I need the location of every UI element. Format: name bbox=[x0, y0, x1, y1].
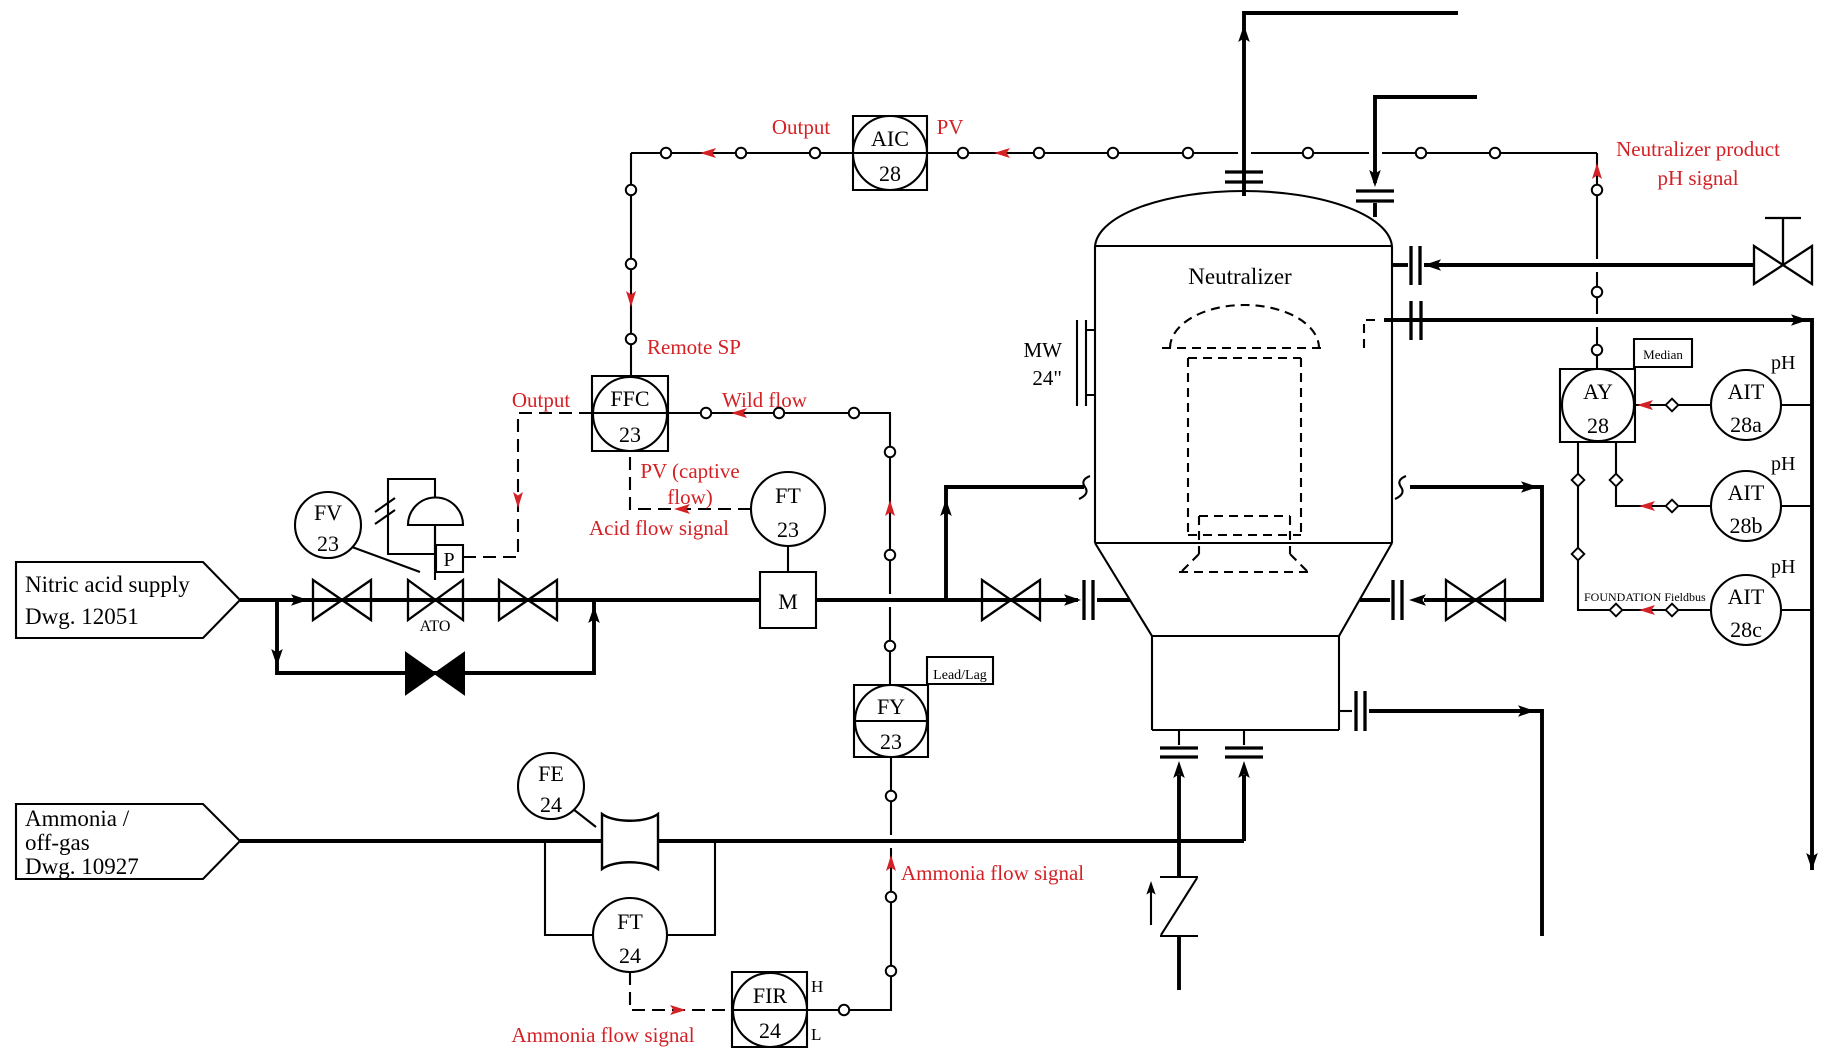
svg-text:flow): flow) bbox=[667, 485, 713, 509]
FT24 to FIR24 dashed signal bbox=[630, 972, 732, 1015]
fieldbus from AIT28a to AY28 bbox=[1635, 399, 1711, 412]
top feed line into vessel dome bbox=[1356, 97, 1477, 217]
bottom nozzles with flanges bbox=[1160, 730, 1263, 877]
riser line break symbol (from pump) bbox=[1146, 877, 1198, 990]
svg-text:pH signal: pH signal bbox=[1657, 166, 1738, 190]
svg-text:28: 28 bbox=[879, 161, 901, 186]
svg-text:off-gas: off-gas bbox=[25, 830, 90, 855]
svg-text:pH: pH bbox=[1771, 352, 1795, 374]
svg-text:Dwg. 12051: Dwg. 12051 bbox=[25, 604, 139, 629]
median selector AY28 bbox=[1560, 369, 1635, 442]
controller AIC28 bbox=[853, 116, 927, 190]
Median box bbox=[1634, 339, 1692, 367]
bottom outlet line to pump (right) bbox=[1339, 691, 1542, 936]
analyzer AIT28c bbox=[1711, 556, 1812, 645]
FV23 actuator bbox=[375, 479, 463, 580]
svg-text:PV: PV bbox=[937, 115, 964, 139]
wild flow signal line FY23 to FFC23 bbox=[668, 408, 895, 685]
svg-text:24: 24 bbox=[759, 1018, 781, 1043]
svg-text:28a: 28a bbox=[1730, 412, 1762, 437]
Lead/Lag box bbox=[927, 657, 993, 684]
svg-text:24": 24" bbox=[1032, 366, 1062, 390]
svg-text:AIC: AIC bbox=[871, 126, 909, 151]
nitric acid main process line bbox=[240, 598, 1078, 602]
flow transmitter FT23 bbox=[751, 472, 825, 572]
acid flow PV dashed signal FT23 to FFC bbox=[630, 450, 751, 514]
svg-text:FFC: FFC bbox=[610, 386, 649, 411]
manway MW 24" bbox=[1024, 320, 1096, 406]
svg-text:Acid flow signal: Acid flow signal bbox=[589, 516, 729, 540]
block valve right bbox=[499, 580, 557, 620]
internal draft tube (dashed) bbox=[1162, 305, 1327, 572]
svg-text:28b: 28b bbox=[1730, 513, 1763, 538]
FFC output dashed signal to positioner bbox=[463, 413, 592, 557]
svg-text:Ammonia flow signal: Ammonia flow signal bbox=[511, 1023, 694, 1047]
svg-text:Ammonia /: Ammonia / bbox=[25, 806, 130, 831]
svg-text:pH: pH bbox=[1771, 556, 1795, 578]
svg-text:AIT: AIT bbox=[1728, 379, 1765, 404]
block valve left bbox=[313, 580, 371, 620]
signal drop to FFC remote SP bbox=[626, 153, 636, 376]
AIC28 output/PV software signal line (top) bbox=[631, 148, 1597, 158]
svg-text:28c: 28c bbox=[1730, 617, 1762, 642]
svg-text:AIT: AIT bbox=[1728, 584, 1765, 609]
svg-text:H: H bbox=[811, 977, 823, 996]
ammonia process line bbox=[240, 839, 1244, 843]
instrument bubble FV23 bbox=[295, 492, 420, 572]
controller FFC23 bbox=[592, 376, 668, 451]
acid riser to vessel top nozzle bbox=[940, 476, 1090, 600]
svg-text:Lead/Lag: Lead/Lag bbox=[933, 668, 987, 683]
svg-text:P: P bbox=[443, 549, 454, 571]
vessel Neutralizer shell bbox=[1095, 191, 1392, 730]
svg-text:Ammonia flow signal: Ammonia flow signal bbox=[901, 861, 1084, 885]
svg-text:FV: FV bbox=[314, 500, 342, 525]
svg-text:Wild flow: Wild flow bbox=[722, 388, 808, 412]
pH signal riser from AY28 bbox=[1592, 153, 1602, 368]
flow transmitter FT24 bbox=[593, 898, 667, 972]
svg-text:Nitric acid supply: Nitric acid supply bbox=[25, 572, 190, 597]
svg-text:24: 24 bbox=[619, 943, 641, 968]
fieldbus from AIT28c to AY28 bbox=[1572, 442, 1711, 616]
svg-text:24: 24 bbox=[540, 792, 562, 817]
nitric acid supply flag bbox=[16, 562, 240, 638]
svg-text:FOUNDATION Fieldbus: FOUNDATION Fieldbus bbox=[1584, 590, 1706, 604]
svg-text:M: M bbox=[778, 589, 798, 614]
svg-text:Output: Output bbox=[772, 115, 831, 139]
svg-text:L: L bbox=[811, 1025, 821, 1044]
bypass line with NC valve bbox=[271, 600, 600, 694]
ammonia off-gas flag bbox=[16, 804, 240, 879]
svg-text:Remote SP: Remote SP bbox=[647, 335, 741, 359]
analyzer AIT28a bbox=[1711, 352, 1812, 440]
reagent line into upper right nozzle y=265 bbox=[1392, 246, 1754, 285]
svg-text:Output: Output bbox=[512, 388, 571, 412]
vent line from vessel top bbox=[1225, 13, 1458, 196]
analyzer AIT28b bbox=[1711, 453, 1812, 541]
svg-text:Neutralizer: Neutralizer bbox=[1188, 264, 1292, 289]
svg-text:FT: FT bbox=[617, 909, 643, 934]
flange lower right cone nozzle bbox=[1393, 580, 1402, 620]
svg-text:23: 23 bbox=[880, 729, 902, 754]
svg-text:ATO: ATO bbox=[420, 618, 451, 635]
FT24 impulse lines bbox=[545, 841, 715, 935]
valve before left cone nozzle bbox=[982, 580, 1040, 620]
svg-text:AIT: AIT bbox=[1728, 480, 1765, 505]
ammonia flow signal line FIR to FY bbox=[807, 757, 896, 1015]
control valve FV23 body bbox=[408, 580, 463, 620]
svg-text:FY: FY bbox=[877, 694, 905, 719]
svg-text:FT: FT bbox=[775, 483, 801, 508]
svg-text:28: 28 bbox=[1587, 413, 1609, 438]
recorder FIR24 bbox=[732, 972, 823, 1047]
flow element venturi FE24 bbox=[518, 753, 658, 869]
svg-text:PV (captive: PV (captive bbox=[640, 459, 739, 483]
fieldbus from AIT28b to AY28 bbox=[1610, 442, 1711, 512]
svg-text:Neutralizer product: Neutralizer product bbox=[1616, 137, 1780, 161]
svg-text:Median: Median bbox=[1643, 347, 1683, 362]
svg-text:AY: AY bbox=[1583, 379, 1613, 404]
recirculation return valve bbox=[1446, 580, 1505, 620]
svg-text:23: 23 bbox=[317, 531, 339, 556]
svg-text:FIR: FIR bbox=[753, 983, 788, 1008]
positioner P bbox=[436, 545, 463, 572]
svg-text:Dwg. 10927: Dwg. 10927 bbox=[25, 854, 139, 879]
svg-text:23: 23 bbox=[777, 517, 799, 542]
svg-text:MW: MW bbox=[1024, 338, 1063, 362]
svg-text:FE: FE bbox=[538, 761, 564, 786]
magnetic flowmeter M bbox=[760, 572, 816, 628]
manual valve top right bbox=[1754, 218, 1812, 284]
svg-text:23: 23 bbox=[619, 422, 641, 447]
svg-text:pH: pH bbox=[1771, 453, 1795, 475]
product line out right side y=320 to bottom right bbox=[1364, 301, 1818, 870]
computing function FY23 bbox=[854, 685, 928, 757]
recirculation outlet upper right y=487 bbox=[1395, 476, 1542, 606]
